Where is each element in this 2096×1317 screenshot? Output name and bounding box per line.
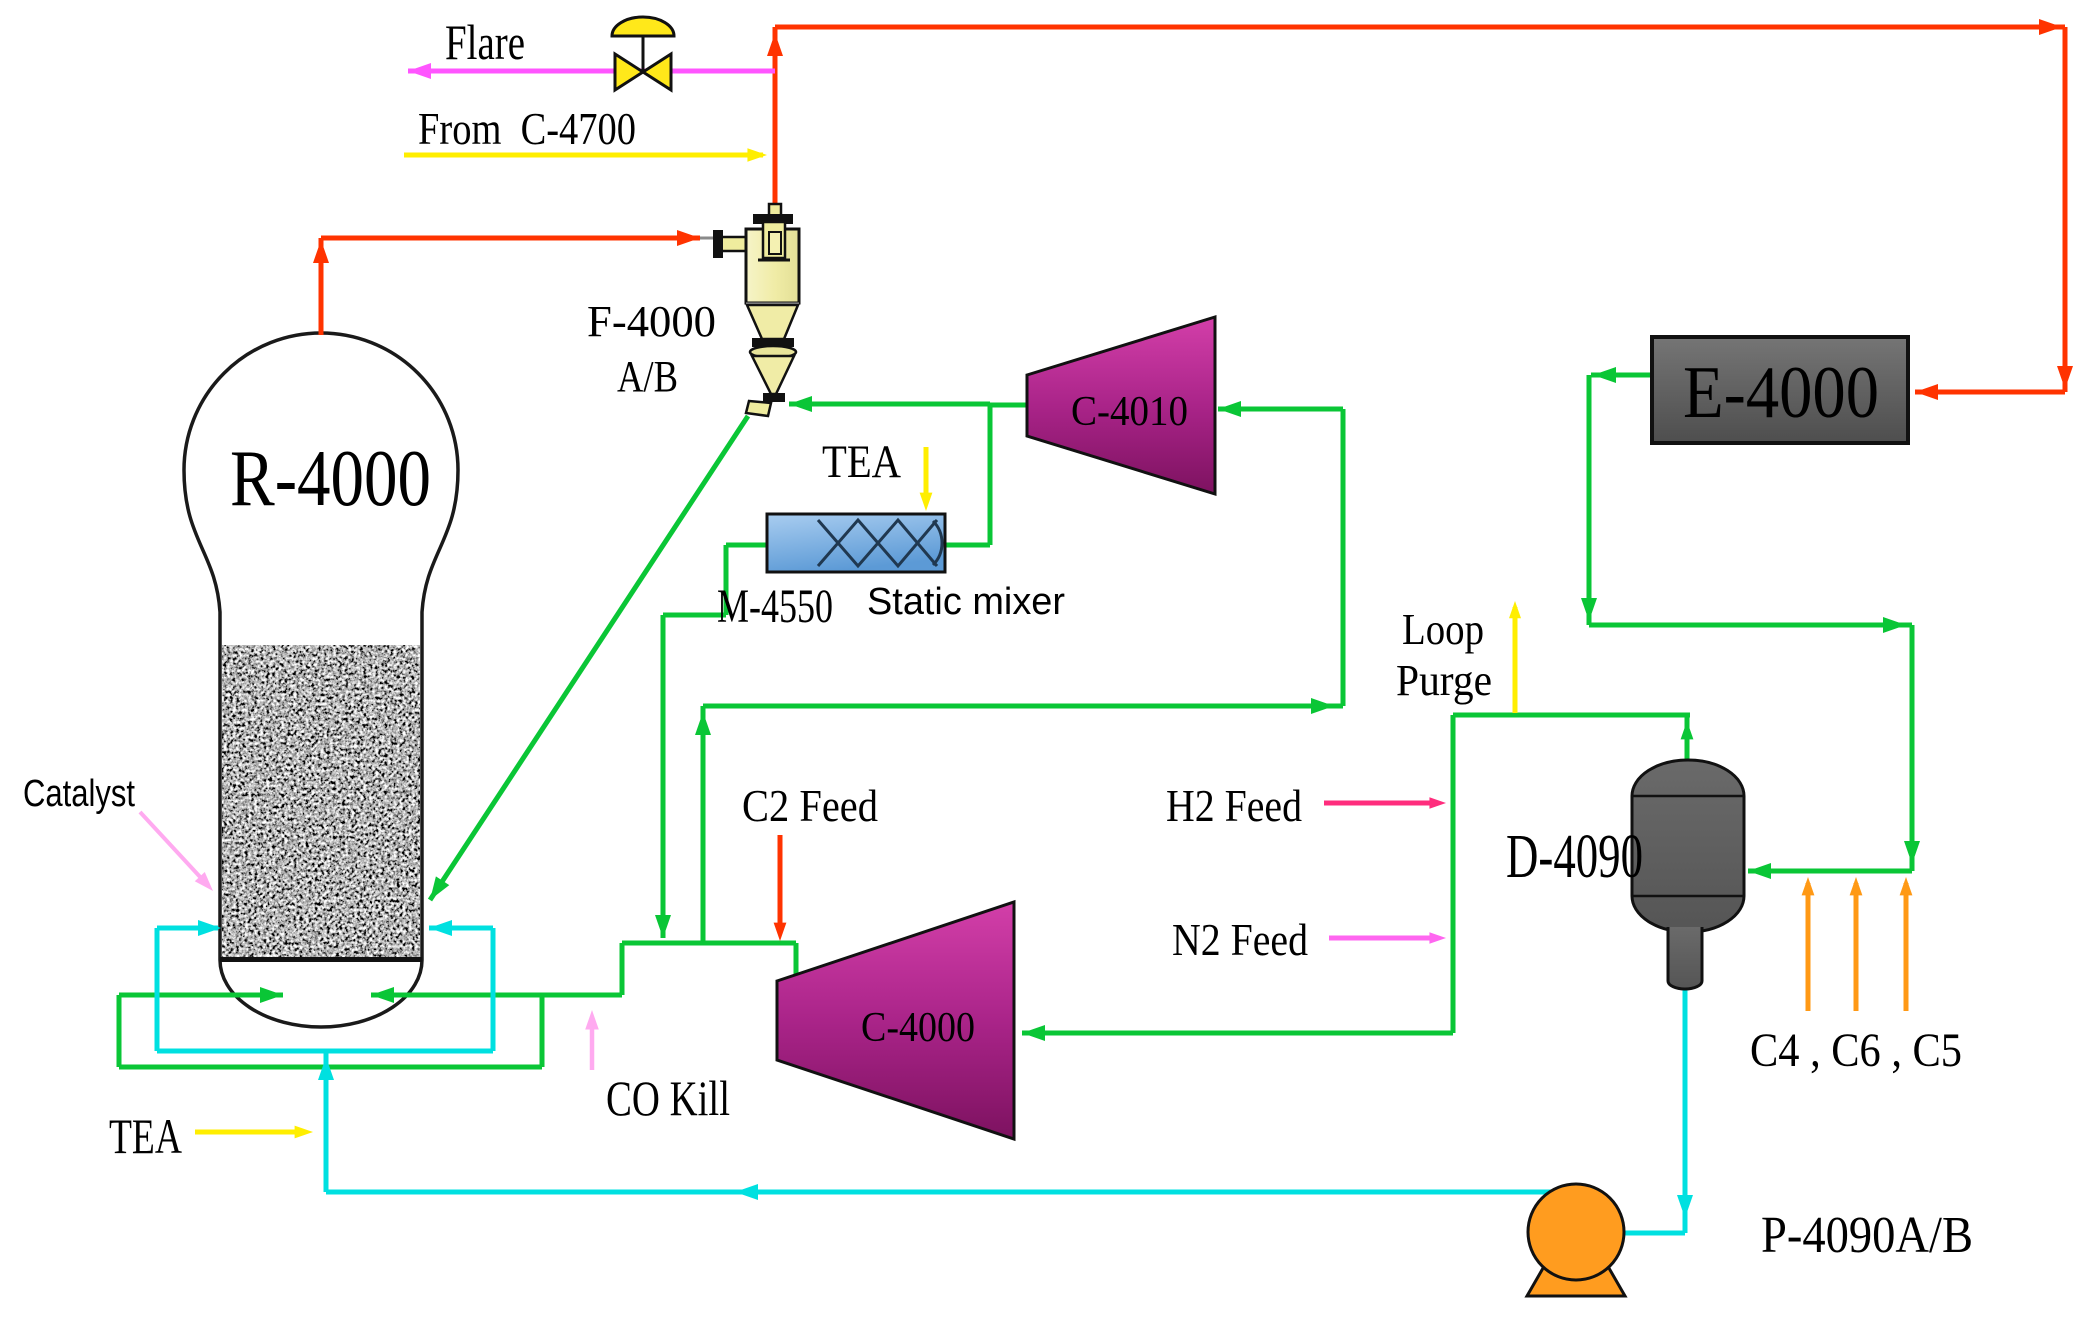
wire into D-4090 right side — [1748, 869, 1912, 874]
lower cone — [752, 356, 794, 394]
vortex finder — [763, 222, 785, 258]
wire C4 orange arrow — [1806, 883, 1811, 1011]
wire Loop Purge arrow — [1513, 607, 1518, 713]
wire TEA arrow (reactor) — [195, 1130, 305, 1135]
black band 1 — [752, 338, 794, 347]
green arrow down at corner — [1904, 841, 1920, 864]
wire cyan left vertical — [155, 928, 160, 1051]
upper cone — [747, 305, 798, 339]
wire M-4550 drop to manifold x=663 — [661, 615, 666, 938]
static mixer M-4550 — [767, 514, 945, 572]
left inlet nozzle — [721, 237, 748, 251]
svg-text:Flare: Flare — [445, 14, 525, 70]
green arrow left into cyclone dipleg — [789, 396, 812, 412]
wire CO Kill arrow — [590, 1026, 595, 1070]
wire C-4000 discharge riser x=796 — [794, 943, 799, 978]
wire down run x=1453 — [1451, 715, 1456, 1033]
top flange — [753, 214, 793, 224]
bed bottom distributor line — [220, 957, 422, 962]
wire reactor overhead riser — [319, 238, 324, 335]
wire D-4090 bottoms down — [1683, 985, 1688, 1233]
svg-text:CO Kill: CO Kill — [606, 1070, 730, 1126]
wire into reactor bottom right — [371, 993, 622, 998]
cyan arrow right into bed — [198, 920, 221, 936]
wire into E-4000 — [1915, 390, 2065, 395]
green arrow right before corner — [1883, 617, 1906, 633]
wire into reactor bottom left — [119, 993, 283, 998]
green arrow left into C-4010 — [1218, 401, 1241, 417]
wire cyan right vertical — [491, 928, 496, 1051]
wire into C-4010 right side — [1218, 407, 1343, 412]
wire into C-4000 right side — [1022, 1031, 1453, 1036]
svg-text:R-4000: R-4000 — [230, 435, 431, 523]
green arrow down before corner — [1581, 598, 1597, 621]
wire top long horizontal — [775, 25, 2065, 30]
green arrow down into manifold — [655, 915, 671, 938]
wire N2 Feed arrow — [1329, 936, 1438, 941]
wire bottom horizontal y=1063 — [119, 1065, 542, 1070]
wire TEA arrow (mixer) — [924, 447, 929, 503]
svg-text:Purge: Purge — [1396, 656, 1492, 705]
wire Catalyst arrow — [140, 812, 202, 879]
green arrow right before corner — [1311, 698, 1334, 714]
svg-text:Static mixer: Static mixer — [867, 581, 1065, 623]
wire cyclone overhead riser — [773, 27, 778, 205]
exchanger E-4000 — [1652, 337, 1908, 443]
svg-text:Loop: Loop — [1402, 605, 1484, 654]
lens ellipse — [750, 346, 796, 358]
green arrow right into vessel bottom — [260, 987, 283, 1003]
green arrow left into D-4090 — [1748, 863, 1771, 879]
catalyst bed (speckled) — [222, 645, 420, 958]
red arrow up at riser corner — [313, 240, 329, 263]
yellow arrow right into red riser — [747, 148, 767, 162]
wire staircase drop x=622 — [620, 943, 625, 995]
cyclone F-4000 A/B — [713, 204, 799, 416]
valve flare control valve — [612, 17, 674, 90]
wire manifold y=943 — [622, 941, 796, 946]
svg-text:D-4090: D-4090 — [1506, 823, 1643, 891]
bottom band — [763, 393, 785, 402]
cyan arrow left into bed — [429, 920, 452, 936]
wire cyan riser from pump line — [324, 1051, 329, 1192]
svg-text:E-4000: E-4000 — [1683, 352, 1879, 434]
wire cyan long pump discharge — [326, 1190, 1563, 1195]
svg-text:F-4000: F-4000 — [587, 297, 716, 346]
wire to cyclone bottom y=404 — [789, 402, 990, 407]
wire mixer left leg y=615 — [663, 613, 726, 618]
green arrow left into C-4000 — [1022, 1025, 1045, 1041]
wire down run x=1589 — [1587, 375, 1592, 625]
svg-text:M-4550: M-4550 — [717, 580, 833, 633]
svg-text:C-4000: C-4000 — [861, 1005, 975, 1051]
wire overhead horizontal y=715 — [1453, 713, 1690, 718]
gray stub at cyclone inlet — [700, 237, 716, 240]
vessel D-4090 — [1632, 760, 1744, 989]
svg-text:Catalyst: Catalyst — [23, 773, 135, 815]
green arrow left at corner — [1593, 367, 1616, 383]
wire E-4000 outlet to left — [1591, 373, 1652, 378]
body — [746, 229, 799, 303]
compressor C-4000 — [777, 902, 1014, 1139]
wire big diagonal cyclone to reactor — [430, 416, 748, 900]
red arrow right into cyclone inlet — [677, 230, 700, 246]
wire drop to mixer x=990 — [988, 404, 993, 545]
wire T-drop x=542 — [540, 995, 545, 1067]
svg-text:C2 Feed: C2 Feed — [742, 780, 878, 831]
wire H2 Feed arrow — [1324, 801, 1438, 806]
svg-text:C-4010: C-4010 — [1071, 389, 1188, 435]
magenta arrow left to Flare — [408, 63, 431, 79]
wire From C-4700 yellow line — [404, 153, 763, 158]
wire reactor overhead horizontal to cyclone — [321, 236, 700, 241]
wire C2 Feed arrow — [778, 835, 783, 930]
green arrow left into vessel bottom — [371, 987, 394, 1003]
wire left riser x=119 — [117, 995, 122, 1067]
red arrow left into E-4000 — [1915, 384, 1938, 400]
svg-text:From C-4700: From C-4700 — [418, 103, 636, 154]
red arrow right at top-right corner — [2039, 19, 2062, 35]
svg-text:P-4090A/B: P-4090A/B — [1761, 1207, 1973, 1264]
svg-text:TEA: TEA — [109, 1108, 182, 1164]
pump P-4090A/B — [1527, 1184, 1625, 1296]
wire C5 orange arrow — [1904, 883, 1909, 1011]
wire into mixer right — [944, 543, 990, 548]
green arrow up at riser top — [695, 712, 711, 735]
wire into mixer left — [726, 543, 768, 548]
cyan arrow down before corner — [1677, 1195, 1693, 1218]
left flange — [713, 230, 723, 258]
wire C-4010 discharge y=405 — [990, 403, 1030, 408]
svg-text:C4 , C6 , C5: C4 , C6 , C5 — [1750, 1024, 1962, 1077]
wire right-side down run — [2063, 27, 2068, 392]
green arrow diagonal tip — [423, 876, 449, 904]
body bottom gray edge — [746, 303, 799, 306]
wire flare magenta line — [408, 69, 775, 74]
wire riser x=1343 to C-4010 level — [1341, 409, 1346, 706]
wire cyan top-left into bed — [157, 926, 218, 931]
wire cyan bottom horizontal — [157, 1049, 493, 1054]
wire D-4090 overhead stub — [1685, 715, 1690, 765]
wire C6 orange arrow — [1854, 883, 1859, 1011]
wire horizontal y=625 — [1589, 623, 1912, 628]
svg-text:TEA: TEA — [822, 436, 901, 488]
outlet spout — [746, 401, 771, 416]
compressor C-4010 — [1027, 317, 1215, 494]
wire mixer left leg x=726 — [724, 545, 729, 615]
cyan arrow left mid-line — [735, 1184, 758, 1200]
wire long horizontal y=706 — [703, 704, 1343, 709]
reactor R-4000 vessel — [184, 333, 458, 1027]
red arrow up near top corner — [767, 33, 783, 56]
wire cyan top-right into bed — [429, 926, 493, 931]
wire bottoms to pump suction — [1620, 1231, 1685, 1236]
cyan arrow up at loop junction — [318, 1057, 334, 1080]
red arrow down at corner — [2057, 366, 2073, 389]
wire down run x=1912 — [1910, 625, 1915, 871]
wire manifold riser x=703 — [701, 706, 706, 943]
green arrow up at stub top — [1681, 721, 1694, 739]
svg-text:H2 Feed: H2 Feed — [1166, 780, 1302, 831]
svg-text:A/B: A/B — [617, 352, 678, 401]
svg-text:N2 Feed: N2 Feed — [1172, 914, 1308, 965]
top nozzle — [769, 204, 781, 216]
